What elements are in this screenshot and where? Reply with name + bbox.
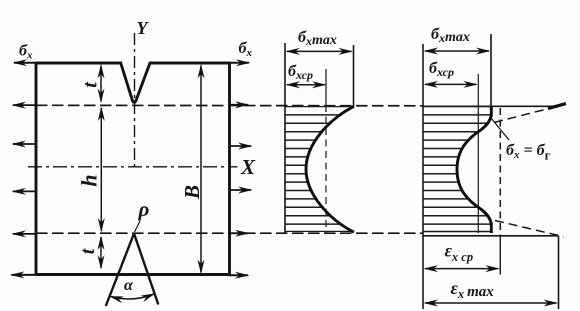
dimension t bottom [100,237,102,268]
right sigma_x_cp line [477,74,479,233]
top solid line right part [423,105,557,107]
eps_x_max dimension arrow [425,302,557,304]
middle sigma_x_max dimension arrow [287,50,352,52]
bottom dashed line through notch apex [36,232,423,234]
dimension h [100,108,102,231]
middle stress curve [306,106,354,232]
left side arrow 2 [13,143,36,145]
right top edge arrow [230,62,249,64]
plate outline [36,63,230,275]
alpha arc with arrows [111,294,155,299]
right dashed-line arrow bottom [230,232,249,234]
top dashed diagonal (strain extrapolation) [494,107,557,123]
right eps_x_cp dashed vertical [499,108,501,236]
left side arrow 1 [13,104,36,106]
right side arrow 3 [230,189,252,191]
middle sigma_x_cp line (solid then dashed) [325,69,327,105]
dimension t top [100,66,102,102]
left top edge arrow [14,62,36,64]
left bottom edge arrow [12,274,37,276]
middle diagram baseline [284,43,286,233]
top right end tick [548,104,566,109]
sigma_x = sigma_T leader [491,118,509,140]
svg-text:ρ: ρ [138,197,150,221]
middle sigma_x_max extension line [353,45,355,107]
bottom dashed diagonal (strain extrapolation) [495,221,564,237]
left side arrow 4 [13,233,36,235]
bottom notch V legs [106,234,159,307]
right sigma_x_max extension line [490,34,492,107]
eps_x_cp dimension arrow [425,268,498,270]
middle hatching [283,107,356,232]
eps extension line right [558,236,560,309]
left side arrow 3 [13,190,36,192]
middle sigma_x_cp dimension arrow [287,84,325,86]
rho leader line [135,221,141,232]
bottom solid line right part [423,235,559,237]
X centerline dash-dot [28,166,238,168]
right sigma_x_cp dimension arrow [425,83,476,85]
right stress curve [457,107,491,233]
Y axis dash-dot [134,33,136,170]
right diagram baseline [422,44,424,309]
svg-text:X: X [240,155,256,179]
right dashed-line arrow top [230,104,249,106]
right sigma_x_max dimension arrow [425,50,489,52]
dimension B [200,66,202,273]
svg-text:B: B [180,185,204,200]
right hatching [421,107,494,232]
top dashed line through notch apex [36,104,423,107]
svg-text:α: α [124,277,134,294]
svg-text:h: h [77,174,102,186]
right side arrow 2 [230,145,252,147]
right bottom edge arrow [230,274,248,276]
